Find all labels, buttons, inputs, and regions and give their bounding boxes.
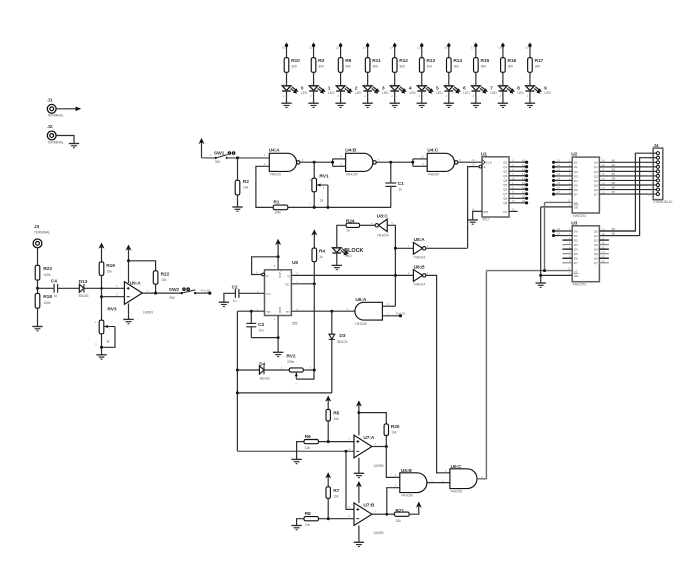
- svg-text:12: 12: [602, 259, 606, 263]
- and gate U6:A 74HC08 (mirrored): [346, 297, 389, 326]
- node R5/R6: [327, 440, 330, 443]
- resistor R18 100k: [35, 293, 52, 308]
- ground at R6: [291, 458, 301, 460]
- svg-text:U4:C: U4:C: [427, 148, 439, 154]
- inverter U8:B 74HC04: [408, 265, 429, 287]
- svg-text:RV2: RV2: [286, 354, 295, 360]
- ground below BLOCK LED: [332, 264, 342, 266]
- svg-text:R15: R15: [480, 58, 489, 64]
- resistor R24 1k: [346, 218, 360, 232]
- svg-text:R2: R2: [243, 179, 249, 185]
- wire U9:A V- to ground: [128, 303, 130, 319]
- U3 unused output Q4 stub: [599, 248, 609, 250]
- svg-text:L0: L0: [282, 45, 286, 49]
- svg-text:D1: D1: [574, 234, 578, 238]
- U2 output Q2 wire to J4 net B2: [594, 167, 653, 173]
- resistor R6 10k: [304, 434, 319, 450]
- svg-text:74HC04: 74HC04: [413, 283, 425, 287]
- svg-text:J3: J3: [34, 224, 40, 230]
- wire RV1 to rail: [313, 192, 315, 208]
- svg-text:VCC: VCC: [278, 272, 282, 279]
- svg-text:300: 300: [318, 64, 324, 68]
- svg-text:LED: LED: [518, 91, 525, 95]
- U2 input D5 from net L5: [552, 181, 578, 187]
- svg-text:LED: LED: [490, 91, 497, 95]
- wire power to SW1: [202, 153, 215, 158]
- node J3 divider: [36, 287, 39, 290]
- J4 pin 6: [649, 174, 659, 178]
- svg-text:L3: L3: [522, 172, 526, 176]
- J4 pin 1: [649, 151, 659, 155]
- svg-text:R4: R4: [319, 249, 325, 255]
- svg-text:BD103: BD103: [260, 377, 270, 381]
- svg-text:Q0: Q0: [594, 161, 598, 165]
- svg-text:TERMINAL: TERMINAL: [47, 140, 63, 144]
- svg-text:LM393: LM393: [374, 531, 384, 535]
- J4 pin 3: [649, 161, 659, 165]
- svg-text:11: 11: [512, 199, 515, 203]
- J4 pin 7: [649, 179, 659, 183]
- svg-text:1k: 1k: [106, 340, 110, 344]
- node U4:B out / C1: [389, 161, 392, 164]
- op-amp U9:A LM393: [116, 281, 153, 315]
- U1 output Q6 wire to net L6: [503, 185, 528, 191]
- svg-text:16: 16: [602, 241, 606, 245]
- wire U2.OE / U3.OE to ground: [540, 207, 542, 283]
- U3 unused input D3 stub: [562, 244, 572, 246]
- svg-text:Q1: Q1: [594, 234, 598, 238]
- node U7:B out: [385, 513, 388, 516]
- wire bottom rail R1 to C1: [288, 206, 391, 208]
- node RV3 wiper: [100, 346, 103, 349]
- U1 output Q7 wire to net L7: [503, 190, 528, 196]
- node R19/+input: [100, 287, 103, 290]
- svg-text:U4:A: U4:A: [269, 148, 281, 154]
- svg-text:CONN-SIL10: CONN-SIL10: [653, 200, 672, 204]
- svg-text:TERMINAL: TERMINAL: [47, 114, 63, 118]
- power terminal at U9:A V+: [126, 245, 132, 284]
- svg-text:CO: CO: [503, 210, 508, 214]
- U3 unused output Q6 stub: [599, 257, 609, 259]
- node output/R22: [154, 292, 157, 295]
- svg-text:D4: D4: [574, 248, 578, 252]
- svg-text:10k: 10k: [107, 269, 113, 273]
- U1 output Q8 wire to net L8: [503, 194, 528, 200]
- svg-text:PULSE: PULSE: [396, 311, 406, 315]
- svg-text:MR: MR: [483, 210, 489, 214]
- wire U4:C tied inputs: [411, 159, 427, 166]
- svg-text:B2: B2: [612, 167, 616, 171]
- U1 output Q5 wire to net L5: [503, 181, 528, 187]
- node TR/D4: [236, 369, 239, 372]
- diode D4 BD103: [237, 361, 289, 380]
- svg-text:300: 300: [291, 64, 297, 68]
- U2 input D3 from net L3: [552, 172, 578, 178]
- U2 input D7 from net L7: [552, 190, 578, 196]
- wire Q net to U8:A input: [395, 247, 413, 249]
- wire RV3 to ground: [101, 334, 103, 355]
- counter U1 4017: [471, 151, 509, 221]
- wire U4:C output to U1 CLK: [458, 161, 482, 163]
- svg-text:10k: 10k: [333, 417, 339, 421]
- wire U5 GND pin1 to ground: [277, 316, 279, 353]
- svg-text:LM393: LM393: [374, 464, 384, 468]
- svg-text:17: 17: [602, 236, 606, 240]
- wire U6:A pin2 from Q net vertical: [382, 305, 395, 307]
- svg-text:R12: R12: [399, 58, 408, 64]
- svg-text:LED: LED: [345, 254, 352, 258]
- svg-text:L9: L9: [525, 45, 529, 49]
- switch SW1: [214, 151, 235, 164]
- U2 input D6 from net L6: [552, 186, 578, 192]
- wire R6 to U7:A +: [319, 441, 355, 443]
- svg-text:Q9: Q9: [503, 201, 507, 205]
- svg-text:Q7: Q7: [594, 261, 598, 265]
- svg-text:Q6: Q6: [503, 188, 507, 192]
- svg-text:R17: R17: [535, 58, 544, 64]
- svg-text:1k: 1k: [320, 199, 324, 203]
- resistor R2 10k: [235, 179, 249, 195]
- wire U9:A output to SW2: [142, 292, 181, 294]
- svg-text:D1: D1: [574, 165, 578, 169]
- node RV1 wiper bottom: [326, 206, 329, 209]
- svg-text:10k: 10k: [161, 278, 167, 282]
- U3 output Q0 wire to J4 net B8: [599, 230, 635, 232]
- U3 unused output Q3 stub: [599, 244, 609, 246]
- wire U7:B output: [372, 513, 387, 515]
- svg-text:L8: L8: [498, 45, 502, 49]
- node TR / C3: [250, 310, 253, 313]
- U3 unused input D2 stub: [562, 239, 572, 241]
- LED branch 5: resistor R13 + LED 5: [417, 43, 444, 108]
- svg-text:10: 10: [512, 177, 516, 181]
- connector J1 (TERMINAL): [47, 97, 63, 117]
- svg-text:L1: L1: [557, 163, 561, 167]
- U1 CO stub pin 12: [509, 207, 518, 211]
- node LE join: [543, 269, 546, 272]
- svg-text:13: 13: [602, 186, 606, 190]
- svg-text:U8:B: U8:B: [414, 265, 426, 271]
- node U5 GND: [277, 336, 280, 339]
- svg-text:R5: R5: [333, 411, 339, 417]
- svg-text:J2: J2: [47, 124, 53, 130]
- U1 output Q1 wire to net L1: [503, 163, 528, 169]
- power terminal at R5: [325, 396, 331, 410]
- wire R6 to ground: [297, 442, 304, 460]
- node on Q net at U8:B: [394, 274, 397, 277]
- svg-text:L8: L8: [557, 227, 561, 231]
- wire U5 CV pin5 to C2: [239, 292, 265, 294]
- ground at J2: [69, 143, 79, 145]
- wire R2 to ground: [237, 195, 239, 207]
- potentiometer RV1 1k: [309, 173, 329, 207]
- ground at C2: [219, 301, 229, 303]
- and gate U6:C 74HC08: [445, 464, 483, 494]
- svg-text:1u: 1u: [53, 294, 57, 298]
- U2 input D1 from net L1: [552, 163, 578, 169]
- svg-text:300: 300: [508, 64, 514, 68]
- U2 OE pin 1: [541, 203, 579, 209]
- wire C3 to U5 GND pin: [251, 337, 278, 339]
- LED branch 4: resistor R12 + LED 4: [390, 43, 417, 108]
- U3 unused input D5 stub: [562, 253, 572, 255]
- node -input branch: [100, 295, 103, 298]
- U3 unused input D6 stub: [562, 257, 572, 259]
- svg-text:D3: D3: [574, 174, 578, 178]
- wire R24 to U8:C output: [360, 224, 376, 226]
- svg-text:10u: 10u: [258, 329, 264, 333]
- svg-text:R19: R19: [106, 263, 115, 269]
- svg-text:OE: OE: [574, 274, 578, 278]
- svg-text:D4: D4: [574, 179, 578, 183]
- node VCC/reset: [277, 255, 280, 258]
- svg-text:15: 15: [602, 177, 606, 181]
- svg-text:Q3: Q3: [503, 174, 507, 178]
- svg-text:D5: D5: [574, 183, 578, 187]
- svg-text:4017: 4017: [482, 218, 489, 222]
- U3 OE pin 1: [541, 272, 579, 278]
- svg-text:R9: R9: [345, 58, 351, 64]
- svg-text:R23: R23: [43, 266, 52, 272]
- resistor R23 100k: [35, 265, 52, 280]
- svg-text:Q1: Q1: [503, 165, 507, 169]
- svg-text:Q2: Q2: [503, 170, 507, 174]
- U3 input D1 from net L9: [552, 234, 555, 237]
- node U7:A out: [385, 445, 388, 448]
- U3 unused output Q5 stub: [599, 253, 609, 255]
- svg-text:Q6: Q6: [594, 257, 598, 261]
- svg-text:LED: LED: [463, 91, 470, 95]
- svg-text:Q3: Q3: [594, 243, 598, 247]
- power terminal at U7:B V+: [356, 481, 362, 503]
- svg-text:10k: 10k: [333, 494, 339, 498]
- svg-text:LM393: LM393: [143, 310, 153, 314]
- wire J1 output with arrow: [56, 107, 81, 112]
- LED branch 7: resistor R15 + LED 7: [471, 43, 498, 108]
- node RV1 bottom: [313, 206, 316, 209]
- resistor R7 10k: [326, 487, 340, 499]
- node DC / R4 / RV2: [313, 282, 316, 285]
- ground U9:A: [123, 318, 133, 320]
- svg-text:E: E: [484, 165, 486, 169]
- wire SW2 to PULSE terminal: [195, 289, 211, 295]
- power terminal at R7: [325, 472, 331, 487]
- wire R21 to power: [409, 502, 422, 515]
- svg-text:L3: L3: [363, 45, 367, 49]
- wire J4 pin1 from U3 Q0 (B8): [599, 153, 653, 231]
- svg-text:U7:B: U7:B: [363, 502, 375, 508]
- U2 LE pin 11: [545, 199, 578, 205]
- wire U7:B out up to U6:B pin2: [387, 488, 400, 515]
- svg-text:D5: D5: [574, 252, 578, 256]
- svg-text:D3: D3: [574, 243, 578, 247]
- diode D3 BD103: [329, 311, 348, 393]
- svg-text:U7:A: U7:A: [363, 435, 375, 441]
- svg-text:Q2: Q2: [594, 238, 598, 242]
- svg-text:1n: 1n: [233, 299, 237, 303]
- svg-text:74HC08: 74HC08: [401, 493, 413, 497]
- node U4:A out / RV1: [313, 161, 316, 164]
- svg-text:D0: D0: [574, 229, 578, 233]
- node on Q net at U8:A: [394, 247, 397, 250]
- svg-text:D7: D7: [574, 192, 578, 196]
- svg-text:10k: 10k: [391, 431, 397, 435]
- svg-text:BLOCK: BLOCK: [344, 248, 363, 254]
- svg-text:74HC08: 74HC08: [450, 490, 462, 494]
- resistor R8 10k: [304, 511, 319, 527]
- LED branch 9: resistor R17 + LED 9: [525, 43, 552, 108]
- wire DC node down to RV2: [313, 284, 315, 370]
- svg-text:10: 10: [648, 192, 652, 196]
- node junction SW1/R2: [236, 156, 239, 159]
- svg-text:12: 12: [512, 207, 516, 211]
- svg-text:D6: D6: [574, 188, 578, 192]
- svg-text:L1: L1: [309, 45, 313, 49]
- diode D13 BD103: [79, 279, 89, 298]
- capacitor C4 1u: [51, 278, 58, 297]
- U1 output Q3 wire to net L3: [503, 172, 528, 178]
- wire U2.LE to U3.LE: [544, 202, 546, 270]
- svg-text:PULSE: PULSE: [201, 289, 211, 293]
- svg-text:GND: GND: [278, 307, 282, 315]
- wire R23 to node: [37, 280, 39, 293]
- power terminal at R19: [99, 243, 105, 262]
- svg-text:R7: R7: [333, 488, 339, 494]
- wire U7:A out down to U6:B pin1: [386, 447, 400, 478]
- svg-text:74HC573: 74HC573: [572, 283, 586, 287]
- svg-text:L4: L4: [557, 177, 561, 181]
- svg-text:J1: J1: [47, 97, 53, 103]
- svg-text:Q2: Q2: [594, 170, 598, 174]
- svg-text:C1: C1: [398, 181, 404, 187]
- svg-text:10: 10: [421, 155, 425, 159]
- svg-text:R3: R3: [318, 58, 324, 64]
- svg-text:LE: LE: [574, 201, 578, 205]
- svg-text:B0: B0: [612, 158, 616, 162]
- svg-text:L9: L9: [522, 199, 526, 203]
- svg-text:200k: 200k: [287, 360, 294, 364]
- wire to R2: [237, 158, 239, 180]
- capacitor C2 1n: [232, 284, 239, 302]
- LED branch 6: resistor R14 + LED 6: [444, 43, 471, 108]
- U2 output Q6 wire to J4 net B6: [594, 186, 653, 192]
- node rail/TR: [236, 391, 239, 394]
- ground for OE: [536, 282, 546, 284]
- svg-text:300: 300: [372, 64, 378, 68]
- capacitor C1 1n: [385, 162, 404, 207]
- wire - input to U9:A: [102, 296, 125, 298]
- svg-text:U5: U5: [292, 260, 298, 266]
- connector J4 CONN-SIL10: [653, 143, 672, 204]
- svg-text:100k: 100k: [43, 273, 50, 277]
- switch SW2: [169, 287, 197, 300]
- svg-text:10k: 10k: [305, 523, 311, 527]
- svg-text:LE: LE: [574, 270, 578, 274]
- potentiometer RV2 200k: [286, 354, 314, 386]
- wire U7:B V- to ground: [358, 526, 360, 543]
- svg-text:L0: L0: [522, 158, 526, 162]
- and gate U6:B 74HC08: [395, 468, 433, 497]
- svg-text:R22: R22: [161, 272, 170, 278]
- svg-text:14: 14: [602, 250, 606, 254]
- svg-text:L4: L4: [522, 176, 526, 180]
- svg-text:L2: L2: [557, 167, 561, 171]
- svg-text:74HC08: 74HC08: [355, 322, 367, 326]
- svg-text:74HC04: 74HC04: [377, 234, 389, 238]
- svg-text:D2: D2: [574, 170, 578, 174]
- resistor R21 10k: [387, 508, 409, 523]
- wire C2 to ground: [224, 293, 236, 302]
- LED branch 0: resistor R10 + LED 0: [281, 43, 308, 108]
- wire TR net to comparator inputs: [237, 450, 354, 452]
- svg-text:Q7: Q7: [503, 192, 507, 196]
- U2 input D0 from net L0: [552, 158, 578, 164]
- op-amp U7:A LM393: [348, 435, 383, 468]
- wire R5 to + input: [327, 421, 329, 442]
- latch U3 74HC573: [571, 220, 599, 286]
- svg-text:U8:C: U8:C: [377, 213, 389, 219]
- svg-text:L2: L2: [336, 45, 340, 49]
- wire U6:B output to U6:C pin2: [427, 479, 450, 483]
- wire U6:A pin1 PULSE terminal: [382, 311, 405, 317]
- svg-text:L8: L8: [522, 194, 526, 198]
- ground U7:A: [354, 472, 364, 474]
- LED branch 8: resistor R16 + LED 8: [498, 43, 525, 108]
- J4 pin 9: [649, 188, 659, 192]
- svg-text:L7: L7: [522, 190, 526, 194]
- U1 output Q9 wire to net L9: [503, 199, 528, 205]
- svg-text:1k: 1k: [346, 228, 350, 232]
- wire U4:A output: [300, 161, 333, 163]
- svg-text:L6: L6: [557, 186, 561, 190]
- svg-text:Q1: Q1: [594, 165, 598, 169]
- wire SW1 to U4:A pin 1: [227, 153, 269, 158]
- svg-text:B6: B6: [612, 186, 616, 190]
- wire U6:C output to LE net: [477, 478, 486, 480]
- latch U2 74HC573: [571, 152, 599, 218]
- U2 input D2 from net L2: [552, 167, 578, 173]
- nand gate U4:C 74HC00: [421, 148, 462, 177]
- svg-text:R1: R1: [273, 200, 279, 206]
- wire R19 down to RV3: [101, 275, 103, 320]
- U3 LE pin 11: [486, 267, 577, 274]
- connector J2 (TERMINAL): [47, 124, 63, 144]
- wire J2 to ground: [56, 136, 74, 144]
- svg-text:18: 18: [602, 163, 606, 167]
- ground below U5: [273, 351, 283, 353]
- power terminal at R4: [311, 229, 317, 248]
- svg-text:300: 300: [535, 64, 541, 68]
- svg-text:555: 555: [292, 322, 298, 326]
- svg-text:D0: D0: [574, 161, 578, 165]
- wire U5 DC pin7: [291, 283, 314, 285]
- svg-text:B3: B3: [612, 172, 616, 176]
- svg-text:L5: L5: [417, 45, 421, 49]
- svg-text:BD103: BD103: [337, 340, 347, 344]
- J4 pin 10: [648, 192, 660, 196]
- svg-text:R11: R11: [372, 58, 381, 64]
- U2 output Q1 wire to J4 net B1: [594, 163, 653, 169]
- wire U1 E from U8:A output: [468, 167, 480, 248]
- svg-text:D7: D7: [574, 261, 578, 265]
- J4 pin 5: [649, 170, 659, 174]
- svg-text:300: 300: [427, 64, 433, 68]
- wire U4:B output: [376, 161, 412, 163]
- svg-text:Q5: Q5: [594, 183, 598, 187]
- wire TR net down the left side: [236, 311, 238, 451]
- wire U5 Q output: [291, 274, 395, 276]
- svg-text:D6: D6: [574, 257, 578, 261]
